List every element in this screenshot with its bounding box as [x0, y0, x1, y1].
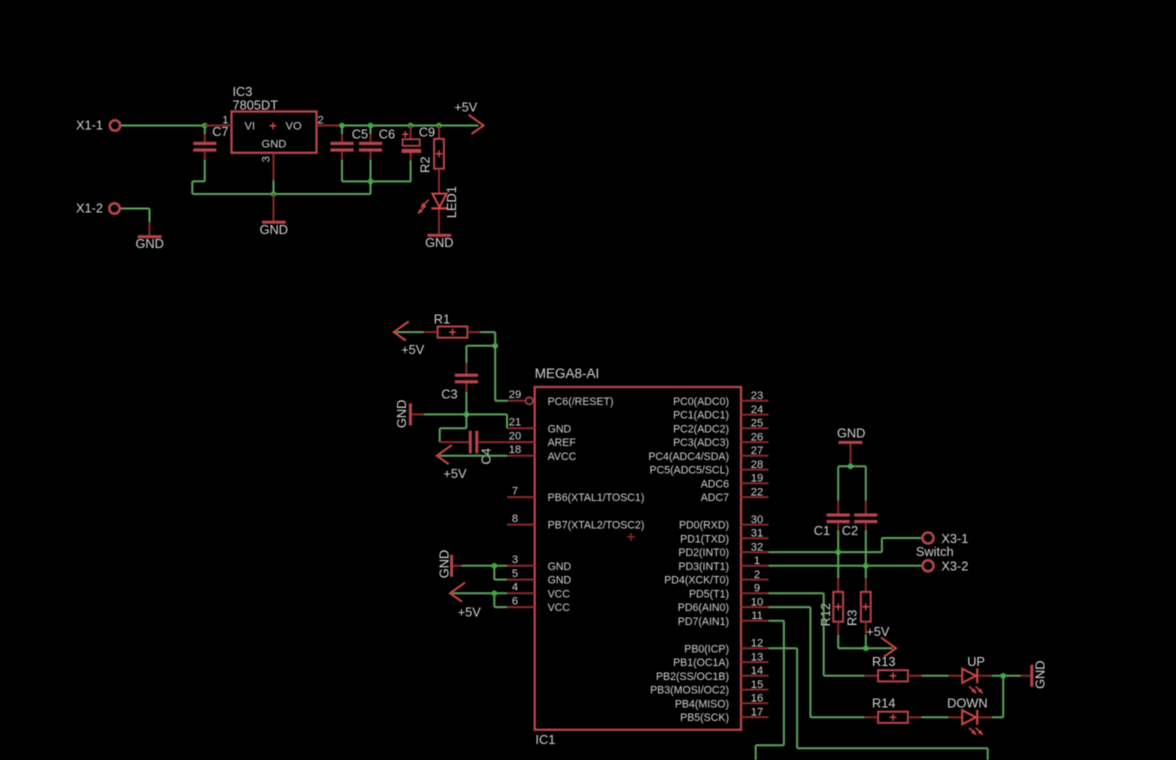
svg-text:PD5(T1): PD5(T1) [689, 588, 729, 600]
svg-text:PD0(RXD): PD0(RXD) [679, 520, 729, 532]
svg-text:C5: C5 [352, 127, 368, 142]
capacitor C6 [370, 126, 372, 135]
pin 2 PD4(XCK/T0) of IC1 [741, 579, 769, 581]
pin 5 GND of IC1 [507, 579, 535, 581]
svg-text:PD4(XCK/T0): PD4(XCK/T0) [664, 575, 729, 587]
svg-text:6: 6 [512, 596, 518, 608]
wire ground to pins 3 and 5 [462, 565, 507, 567]
wire node E to ground bus [370, 181, 372, 194]
svg-text:MEGA8-AI: MEGA8-AI [535, 366, 600, 381]
LED DOWN [962, 710, 976, 724]
pin 17 PB5(SCK) of IC1 [741, 716, 769, 718]
wire LED UP to ground [978, 675, 992, 677]
svg-text:VI: VI [245, 121, 256, 133]
pin 20 AREF of IC1 [507, 441, 535, 443]
pin 8 PB7(XTAL2/TOSC2) of IC1 [507, 524, 535, 526]
svg-text:R14: R14 [872, 696, 895, 711]
wire pin 9 to R13 [769, 592, 824, 594]
svg-text:1: 1 [222, 114, 228, 126]
svg-text:X3-2: X3-2 [941, 559, 968, 574]
ground symbol right of LED UP [1021, 675, 1030, 677]
node C (junction at C5) [339, 123, 345, 129]
wire R3 to +5V node [865, 622, 867, 635]
svg-text:1: 1 [754, 555, 760, 567]
node E (junction lower bus) [368, 179, 374, 185]
svg-text:PC6(/RESET): PC6(/RESET) [548, 396, 614, 408]
ground symbol at X1-2 [149, 222, 151, 235]
svg-text:X1-2: X1-2 [76, 200, 103, 215]
svg-text:8: 8 [512, 513, 518, 525]
wire C5 to lower bus [341, 160, 343, 182]
svg-text:C6: C6 [379, 127, 395, 142]
svg-text:GND: GND [548, 575, 572, 587]
svg-text:19: 19 [751, 473, 763, 485]
svg-text:UP: UP [967, 654, 985, 669]
resistor R14 [878, 712, 908, 723]
svg-text:X1-1: X1-1 [76, 118, 103, 133]
svg-text:2: 2 [318, 114, 324, 126]
wire pin 1 to switch X3-2 [769, 565, 922, 567]
wire +5V rail [342, 125, 479, 127]
svg-text:ADC7: ADC7 [701, 492, 729, 504]
svg-text:2: 2 [754, 569, 760, 581]
+5V supply symbol at R1 [394, 321, 409, 340]
svg-text:PC2(ADC2): PC2(ADC2) [673, 423, 729, 435]
svg-text:12: 12 [751, 638, 763, 650]
origin cross of IC1 [627, 533, 635, 541]
svg-text:R2: R2 [417, 157, 432, 173]
pin 22 ADC7 of IC1 [741, 496, 769, 498]
svg-text:+5V: +5V [866, 624, 890, 639]
svg-text:R12: R12 [818, 603, 833, 626]
wire pin 32 to switch X3-1 [769, 551, 882, 553]
pin 11 PD7(AIN1) of IC1 [741, 620, 769, 622]
svg-text:C2: C2 [842, 523, 858, 538]
pin 21 GND of IC1 [507, 427, 535, 429]
svg-text:GND: GND [548, 561, 572, 573]
svg-text:GND: GND [262, 138, 287, 150]
pin 12 PB0(ICP) of IC1 [741, 647, 769, 649]
capacitor C2 [865, 501, 867, 514]
pin 28 PC5(ADC5/SCL) of IC1 [741, 469, 769, 471]
node F (junction at C9) [408, 123, 414, 129]
svg-text:DOWN: DOWN [947, 696, 988, 711]
svg-text:22: 22 [751, 486, 763, 498]
wire LED DOWN to node P [978, 716, 992, 718]
wire pin 10 to R14 [769, 606, 811, 608]
wire X1-1 to node A [121, 125, 205, 127]
pin 31 PD1(TXD) of IC1 [741, 537, 769, 539]
svg-text:R1: R1 [434, 312, 450, 327]
svg-text:PB7(XTAL2/TOSC2): PB7(XTAL2/TOSC2) [548, 520, 645, 532]
wire C9 to lower bus [410, 161, 412, 182]
capacitor C7 [204, 126, 206, 135]
capacitor C4 (AREF) [440, 441, 469, 443]
svg-text:18: 18 [509, 444, 521, 456]
pin 23 PC0(ADC0) of IC1 [741, 400, 769, 402]
svg-text:25: 25 [751, 418, 763, 430]
svg-text:C1: C1 [814, 523, 830, 538]
svg-text:21: 21 [509, 417, 521, 429]
wire R2 to LED1 [438, 169, 440, 194]
wire ground to node I [424, 413, 467, 415]
svg-text:14: 14 [751, 665, 763, 677]
resistor R2 [438, 126, 440, 139]
pin 26 PC3(ADC3) of IC1 [741, 441, 769, 443]
pin 4 VCC of IC1 [507, 592, 535, 594]
node L (junction below ground) [848, 463, 854, 469]
svg-text:PD2(INT0): PD2(INT0) [678, 547, 729, 559]
svg-text:VCC: VCC [548, 602, 571, 614]
wire pin 12 off-sheet [769, 647, 798, 649]
polarized capacitor C9 [410, 126, 412, 140]
svg-text:VO: VO [286, 121, 302, 133]
+5V supply symbol at VCC pins [450, 583, 465, 602]
wire C1 net to R12 [837, 552, 839, 578]
svg-text:9: 9 [754, 583, 760, 595]
svg-text:3: 3 [512, 554, 518, 566]
node B (junction GND bus) [271, 191, 277, 197]
wire C6 to lower bus [370, 160, 372, 182]
wire +5V to pins 4 and 6 [453, 592, 507, 594]
wire R13 to LED UP [908, 675, 921, 677]
pin 14 PB2(SS/OC1B) of IC1 [741, 675, 769, 677]
node K (junction pin 4) [491, 590, 497, 596]
svg-text:VCC: VCC [548, 588, 571, 600]
LED LED1 [432, 194, 446, 208]
wire pin 11 off-sheet [769, 620, 784, 622]
svg-text:GND: GND [1032, 660, 1047, 688]
svg-text:PB4(MISO): PB4(MISO) [675, 698, 729, 710]
svg-text:27: 27 [751, 445, 763, 457]
ground symbol below IC3 [273, 194, 275, 221]
wire pin3 to ground bus [273, 180, 275, 194]
svg-text:AREF: AREF [548, 437, 577, 449]
svg-text:LED1: LED1 [444, 186, 459, 218]
svg-text:17: 17 [751, 706, 763, 718]
pin 27 PC4(ADC4/SDA) of IC1 [741, 455, 769, 457]
ground bus wire [192, 193, 370, 195]
wire node I to pin 21 [466, 413, 507, 415]
pin 6 VCC of IC1 [507, 606, 535, 608]
svg-text:PB5(SCK): PB5(SCK) [680, 712, 729, 724]
svg-text:PB2(SS/OC1B): PB2(SS/OC1B) [656, 671, 729, 683]
svg-text:PB3(MOSI/OC2): PB3(MOSI/OC2) [650, 685, 729, 697]
wire R1 to reset node [467, 331, 480, 333]
svg-text:23: 23 [751, 390, 763, 402]
+5V supply symbol at pull-ups [866, 647, 893, 649]
resistor R1 [438, 327, 468, 338]
svg-text:GND: GND [837, 425, 865, 440]
svg-text:28: 28 [751, 459, 763, 471]
node M (junction C1 / pin32) [835, 549, 841, 555]
wire R12 to +5V node [837, 622, 839, 635]
wire node H to C3 [466, 345, 495, 347]
resistor R3 [861, 592, 871, 622]
svg-text:C3: C3 [441, 387, 457, 402]
pin 16 PB4(MISO) of IC1 [741, 702, 769, 704]
svg-text:GND: GND [548, 423, 572, 435]
wire C3 to ground node [465, 392, 467, 415]
svg-text:13: 13 [751, 651, 763, 663]
pin 1 PD3(INT1) of IC1 [741, 565, 769, 567]
svg-text:C9: C9 [419, 124, 435, 139]
wire LED1 to ground [438, 210, 440, 234]
resistor R12 [833, 592, 843, 622]
svg-text:32: 32 [751, 541, 763, 553]
svg-text:GND: GND [260, 222, 288, 237]
svg-text:PB0(ICP): PB0(ICP) [684, 643, 729, 655]
+5V supply symbol (power rail) [469, 115, 484, 134]
pin 1 of IC3 [205, 125, 232, 127]
svg-text:30: 30 [751, 514, 763, 526]
pin 3 of IC3 [273, 153, 275, 181]
svg-text:4: 4 [512, 582, 518, 594]
connector pad X3-2 [923, 560, 934, 571]
pin 10 PD6(AIN0) of IC1 [741, 606, 769, 608]
svg-text:29: 29 [509, 389, 521, 401]
node N (junction C2 / pin1) [863, 563, 869, 569]
svg-text:R13: R13 [872, 654, 895, 669]
wire C2 net to R3 [865, 566, 867, 579]
+5V supply symbol at AVCC [437, 445, 452, 464]
pin 13 PB1(OC1A) of IC1 [741, 661, 769, 663]
svg-text:GND: GND [135, 236, 163, 251]
svg-text:31: 31 [751, 528, 763, 540]
wire node H to pin 29 [494, 346, 496, 401]
wire C1 to pin 32 net [837, 530, 839, 552]
svg-text:15: 15 [751, 679, 763, 691]
svg-text:26: 26 [751, 431, 763, 443]
capacitor C1 [837, 501, 839, 514]
svg-text:PB1(OC1A): PB1(OC1A) [673, 657, 729, 669]
svg-text:+5V: +5V [401, 342, 425, 357]
pin 30 PD0(RXD) of IC1 [741, 524, 769, 526]
svg-text:PD7(AIN1): PD7(AIN1) [678, 616, 729, 628]
svg-text:PC0(ADC0): PC0(ADC0) [673, 396, 729, 408]
wire C7 to ground bus [204, 160, 206, 182]
node P (LED cathode junction) [1000, 673, 1006, 679]
svg-text:3: 3 [261, 156, 273, 162]
resistor R13 [878, 670, 908, 681]
svg-text:PD1(TXD): PD1(TXD) [680, 533, 729, 545]
svg-text:PC3(ADC3): PC3(ADC3) [673, 437, 729, 449]
svg-text:10: 10 [751, 596, 763, 608]
svg-text:24: 24 [751, 404, 763, 416]
pin 7 PB6(XTAL1/TOSC1) of IC1 [507, 496, 535, 498]
node I (analog ground junction) [464, 412, 470, 418]
wire +5V to pin 18 [440, 455, 508, 457]
wire node I to C4 [465, 414, 467, 428]
pin 32 PD2(INT0) of IC1 [741, 551, 769, 553]
svg-text:5: 5 [512, 568, 518, 580]
pin 19 ADC6 of IC1 [741, 482, 769, 484]
svg-text:PD3(INT1): PD3(INT1) [678, 561, 729, 573]
svg-text:20: 20 [509, 431, 521, 443]
svg-text:+5V: +5V [454, 99, 478, 114]
connector pad X1-2 [109, 203, 119, 213]
pin 2 of IC3 [317, 125, 343, 127]
svg-text:+5V: +5V [443, 466, 467, 481]
pin 9 PD5(T1) of IC1 [741, 592, 769, 594]
pin 24 PC1(ADC1) of IC1 [741, 414, 769, 416]
lower capacitor bus wire [342, 180, 411, 182]
connector pad X1-1 [110, 120, 120, 130]
wire X1-2 to ground [121, 208, 150, 210]
wire C2 to pin 1 net [865, 530, 867, 566]
pin 15 PB3(MOSI/OC2) of IC1 [741, 689, 769, 691]
svg-text:IC1: IC1 [535, 732, 555, 747]
svg-text:PB6(XTAL1/TOSC1): PB6(XTAL1/TOSC1) [548, 492, 645, 504]
connector pad X3-1 [923, 533, 934, 544]
svg-text:ADC6: ADC6 [701, 478, 729, 490]
node G (junction at R2) [436, 123, 442, 129]
LED UP [962, 669, 976, 683]
svg-text:7: 7 [512, 486, 518, 498]
svg-text:PD6(AIN0): PD6(AIN0) [678, 602, 729, 614]
pin 29 PC6(/RESET) of IC1 [508, 400, 526, 402]
svg-text:AVCC: AVCC [548, 451, 577, 463]
pin 25 PC2(ADC2) of IC1 [741, 427, 769, 429]
node O (pull-up +5V junction) [863, 645, 869, 651]
ground symbol below LED1 [427, 234, 451, 237]
svg-text:16: 16 [751, 693, 763, 705]
node A (junction at C7) [202, 123, 208, 129]
capacitor C5 [341, 126, 343, 135]
svg-text:GND: GND [425, 235, 453, 250]
pin 18 AVCC of IC1 [507, 455, 535, 457]
wire +5V to R1 [397, 331, 424, 333]
node H (reset junction) [492, 343, 498, 349]
svg-text:+5V: +5V [458, 604, 482, 619]
node J (junction pin 3) [491, 563, 497, 569]
svg-text:PC1(ADC1): PC1(ADC1) [673, 410, 729, 422]
svg-text:GND: GND [436, 550, 451, 578]
svg-text:R3: R3 [844, 610, 859, 626]
wire R14 to LED DOWN [908, 716, 921, 718]
svg-text:PC4(ADC4/SDA): PC4(ADC4/SDA) [648, 451, 729, 463]
node D (junction at C6) [368, 123, 374, 129]
svg-text:GND: GND [394, 400, 409, 428]
svg-text:11: 11 [751, 610, 763, 622]
wire ground to C1 and C2 [838, 465, 866, 467]
svg-text:PC5(ADC5/SCL): PC5(ADC5/SCL) [650, 465, 729, 477]
capacitor C3 [465, 363, 467, 374]
svg-text:Switch: Switch [916, 544, 954, 559]
pin 3 GND of IC1 [507, 565, 535, 567]
